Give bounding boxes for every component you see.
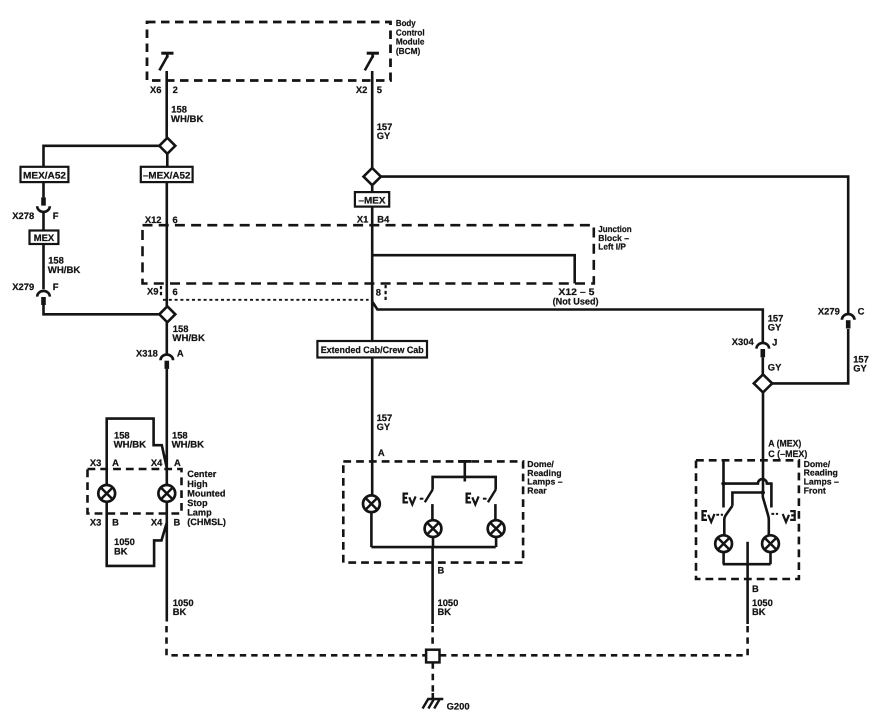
lamp rear dome bulb 3 — [488, 520, 505, 547]
svg-text:X2: X2 — [356, 84, 367, 95]
rear-left fixed contact to lamp 2 — [431, 504, 434, 520]
dashed ground wire front B to splice square — [440, 626, 748, 655]
wire Extended Cab box down to rear dome lamps pin A — [371, 358, 374, 497]
svg-text:A (MEX): A (MEX) — [768, 437, 801, 448]
switch rear-left (door switch) blade — [425, 490, 433, 503]
rear internal rail — [433, 477, 496, 490]
svg-text:Front: Front — [804, 485, 826, 495]
wire -MEX down through junction block (X1-B4 to pin 8) — [371, 207, 374, 341]
lamp front dome right bulb — [762, 535, 779, 564]
svg-text:BK: BK — [114, 545, 128, 556]
svg-text:J: J — [772, 336, 777, 347]
switch S1 inside BCM (X6 output driver) — [159, 53, 173, 70]
label E actuator rear-left — [404, 494, 416, 505]
svg-text:MEX: MEX — [34, 232, 55, 243]
label Dome/Reading Lamps - Front — [804, 459, 839, 495]
svg-text:High: High — [187, 479, 208, 489]
svg-text:MEX/A52: MEX/A52 — [23, 170, 66, 181]
svg-text:G200: G200 — [447, 701, 470, 712]
wire CHMSL main 1050 BK down — [166, 522, 169, 621]
svg-text:B: B — [112, 517, 119, 528]
splice diamond S_C (157 GY) — [364, 168, 381, 185]
svg-text:–MEX/A52: –MEX/A52 — [143, 170, 191, 181]
svg-text:B: B — [438, 564, 445, 575]
lamp rear dome bulb 1 — [363, 495, 380, 547]
wire X279 down and right to diamond S_B — [44, 305, 159, 314]
svg-text:Rear: Rear — [527, 485, 547, 495]
ground G200 symbol — [423, 693, 444, 709]
lamp CHMSL left bulb (X3) — [98, 469, 115, 514]
svg-text:8: 8 — [376, 287, 381, 298]
svg-text:X4: X4 — [151, 517, 163, 528]
label box -MEX — [355, 192, 389, 207]
wire X318 down to CHMSL pin X4-A — [166, 369, 169, 469]
connector X278 (blade + cup) — [37, 197, 50, 211]
lamp CHMSL right bulb (X4) — [158, 469, 175, 523]
svg-text:(CHMSL): (CHMSL) — [187, 517, 226, 527]
wire X2-5 pin down to diamond S_C — [371, 71, 374, 168]
junction block internal wire to X12-5 (not used) — [372, 255, 575, 283]
svg-text:X12: X12 — [145, 214, 162, 225]
svg-text:X1: X1 — [357, 213, 368, 224]
jumper wire X4-A to X3-A (CHMSL feed) — [107, 419, 167, 469]
dashed ground wire rear B to splice square — [431, 626, 434, 650]
connector X279 C (cup + blade) — [842, 314, 855, 328]
svg-text:WH/BK: WH/BK — [171, 113, 204, 124]
svg-text:X3: X3 — [90, 517, 101, 528]
rear-right fixed contact to lamp 3 — [494, 504, 497, 520]
svg-text:Extended Cab/Crew Cab: Extended Cab/Crew Cab — [321, 344, 424, 355]
svg-text:–MEX: –MEX — [359, 194, 387, 205]
svg-text:(Not Used): (Not Used) — [553, 295, 599, 306]
wire X304 to diamond S_D — [761, 357, 764, 374]
front internal stub from top edge (fixed contact left) — [722, 460, 725, 507]
label E actuator front-left — [703, 511, 715, 522]
svg-text:(BCM): (BCM) — [396, 46, 420, 56]
label Body Control Module (BCM) — [396, 18, 425, 56]
wire diamond S_C right to X279 C drop — [381, 177, 848, 314]
svg-text:X278: X278 — [12, 210, 34, 221]
svg-text:F: F — [53, 210, 59, 221]
svg-text:A: A — [177, 348, 184, 359]
svg-text:GY: GY — [768, 362, 782, 373]
splice diamond S_B — [159, 306, 175, 322]
jumper wire X4-B to X3-B (CHMSL return) — [107, 514, 167, 566]
svg-text:C (–MEX): C (–MEX) — [768, 448, 807, 459]
junction block dashed box — [143, 225, 594, 283]
svg-text:GY: GY — [853, 363, 867, 374]
svg-text:BK: BK — [173, 606, 187, 617]
svg-text:Stop: Stop — [187, 498, 208, 508]
wire -MEX/A52 box down through junction block to diamond S_B — [166, 182, 169, 306]
svg-text:WH/BK: WH/BK — [114, 439, 147, 450]
label box MEX — [30, 231, 59, 245]
svg-text:GY: GY — [768, 322, 782, 333]
branch wire to front lamps (157 GY) — [372, 302, 763, 343]
svg-text:X279: X279 — [818, 306, 840, 317]
svg-text:BK: BK — [438, 606, 452, 617]
dashed ground wire from CHMSL to splice square — [167, 626, 427, 655]
label Junction Block Left I/P — [598, 224, 631, 251]
label Center High Mounted Stop Lamp (CHMSL) — [187, 469, 226, 527]
label box Extended Cab/Crew Cab — [317, 341, 427, 358]
front rail1 with hop over main wire — [724, 479, 772, 507]
actuator dashes front-right — [771, 513, 778, 515]
rear dome lamps dashed box — [343, 461, 523, 562]
actuator dash rear-right — [483, 498, 487, 500]
splice diamond S_A (158 WH/BK) — [159, 138, 175, 154]
wire diamond S_B down to X318 — [166, 322, 169, 355]
front internal middle stub — [746, 542, 749, 564]
svg-text:Left I/P: Left I/P — [598, 242, 626, 252]
svg-text:WH/BK: WH/BK — [172, 332, 205, 343]
BCM module dashed box — [147, 22, 391, 81]
svg-text:X304: X304 — [732, 336, 755, 347]
svg-text:6: 6 — [173, 214, 178, 225]
rear bottom bus wire — [371, 546, 495, 549]
svg-text:X279: X279 — [12, 281, 34, 292]
wire rear pin B down (1050 BK) — [431, 547, 434, 624]
front rail2 from main wire junction — [761, 490, 765, 494]
switch rear-right blade — [488, 490, 496, 503]
svg-text:X4: X4 — [151, 457, 163, 468]
svg-text:F: F — [53, 281, 59, 292]
switch front-left blade to left lamp — [724, 506, 732, 536]
label box MEX/A52 — [21, 167, 69, 182]
splice square S407 — [426, 650, 439, 663]
wire MEX box to connector X279 (left) — [42, 244, 45, 289]
svg-text:X318: X318 — [136, 348, 158, 359]
svg-text:WH/BK: WH/BK — [48, 264, 81, 275]
svg-text:5: 5 — [377, 84, 382, 95]
dashed wire splice square to ground — [431, 662, 434, 693]
svg-text:GY: GY — [377, 130, 391, 141]
svg-text:Mounted: Mounted — [187, 488, 225, 498]
wire diamond S_C down to -MEX box — [371, 185, 374, 192]
label Dome/Reading Lamps - Rear — [527, 459, 562, 495]
connector X304 (cup + blade) — [757, 343, 770, 357]
svg-text:2: 2 — [173, 84, 178, 95]
label box -MEX/A52 — [141, 167, 193, 182]
wire diamond S_D down to front dome lamps — [762, 392, 765, 492]
connector X279 left (cup + blade) — [37, 291, 50, 305]
svg-text:Lamp: Lamp — [187, 508, 212, 518]
wire diamond S_D right and up to X279 C — [772, 329, 848, 383]
svg-text:A: A — [174, 457, 181, 468]
dotted line under junction block pins — [163, 299, 369, 301]
svg-text:X3: X3 — [90, 457, 101, 468]
svg-text:WH/BK: WH/BK — [172, 439, 205, 450]
svg-text:GY: GY — [377, 421, 391, 432]
svg-text:C: C — [858, 306, 865, 317]
svg-text:B: B — [174, 517, 181, 528]
connector X318 (cup + blade) — [161, 355, 174, 369]
wire front pin B down (1050 BK) — [746, 564, 749, 624]
switch front-right blade to right lamp — [763, 493, 769, 536]
lamp front dome left bulb — [715, 535, 732, 564]
wire MEX/A52 to connector X278 — [42, 182, 45, 197]
svg-text:Center: Center — [187, 469, 217, 479]
front bottom bus wire — [723, 563, 771, 566]
label E actuator front-right (mirrored) — [783, 511, 795, 522]
svg-text:6: 6 — [173, 286, 178, 297]
CHMSL dashed box — [88, 469, 182, 514]
switch S2 inside BCM (X2 output driver) — [365, 53, 379, 70]
svg-text:B: B — [752, 583, 759, 594]
rear lamps internal top stub with T-bar — [458, 460, 471, 463]
label E actuator rear-right — [467, 494, 479, 505]
svg-text:B4: B4 — [377, 213, 390, 224]
wire -MEX/A52 column: diamond S_A to -MEX/A52 box — [166, 154, 169, 167]
actuator dashes front-left — [716, 514, 723, 516]
splice diamond S_D — [754, 374, 772, 392]
pin box dashes at pin 8 — [385, 285, 387, 300]
actuator dash rear-left — [420, 498, 424, 500]
lamp rear dome bulb 2 — [425, 520, 442, 547]
pin box dashes at X9-6 — [160, 286, 162, 298]
svg-text:X6: X6 — [150, 84, 161, 95]
svg-text:X9: X9 — [147, 286, 158, 297]
svg-text:A: A — [378, 447, 385, 458]
wire X6-2 pin down to splice diamond — [165, 71, 168, 138]
svg-text:BK: BK — [752, 606, 766, 617]
wire X278 to MEX box — [42, 211, 45, 230]
svg-text:A: A — [112, 457, 119, 468]
front dome lamps dashed box — [696, 460, 799, 579]
wire from diamond left to MEX/A52 fuse column — [44, 146, 160, 167]
